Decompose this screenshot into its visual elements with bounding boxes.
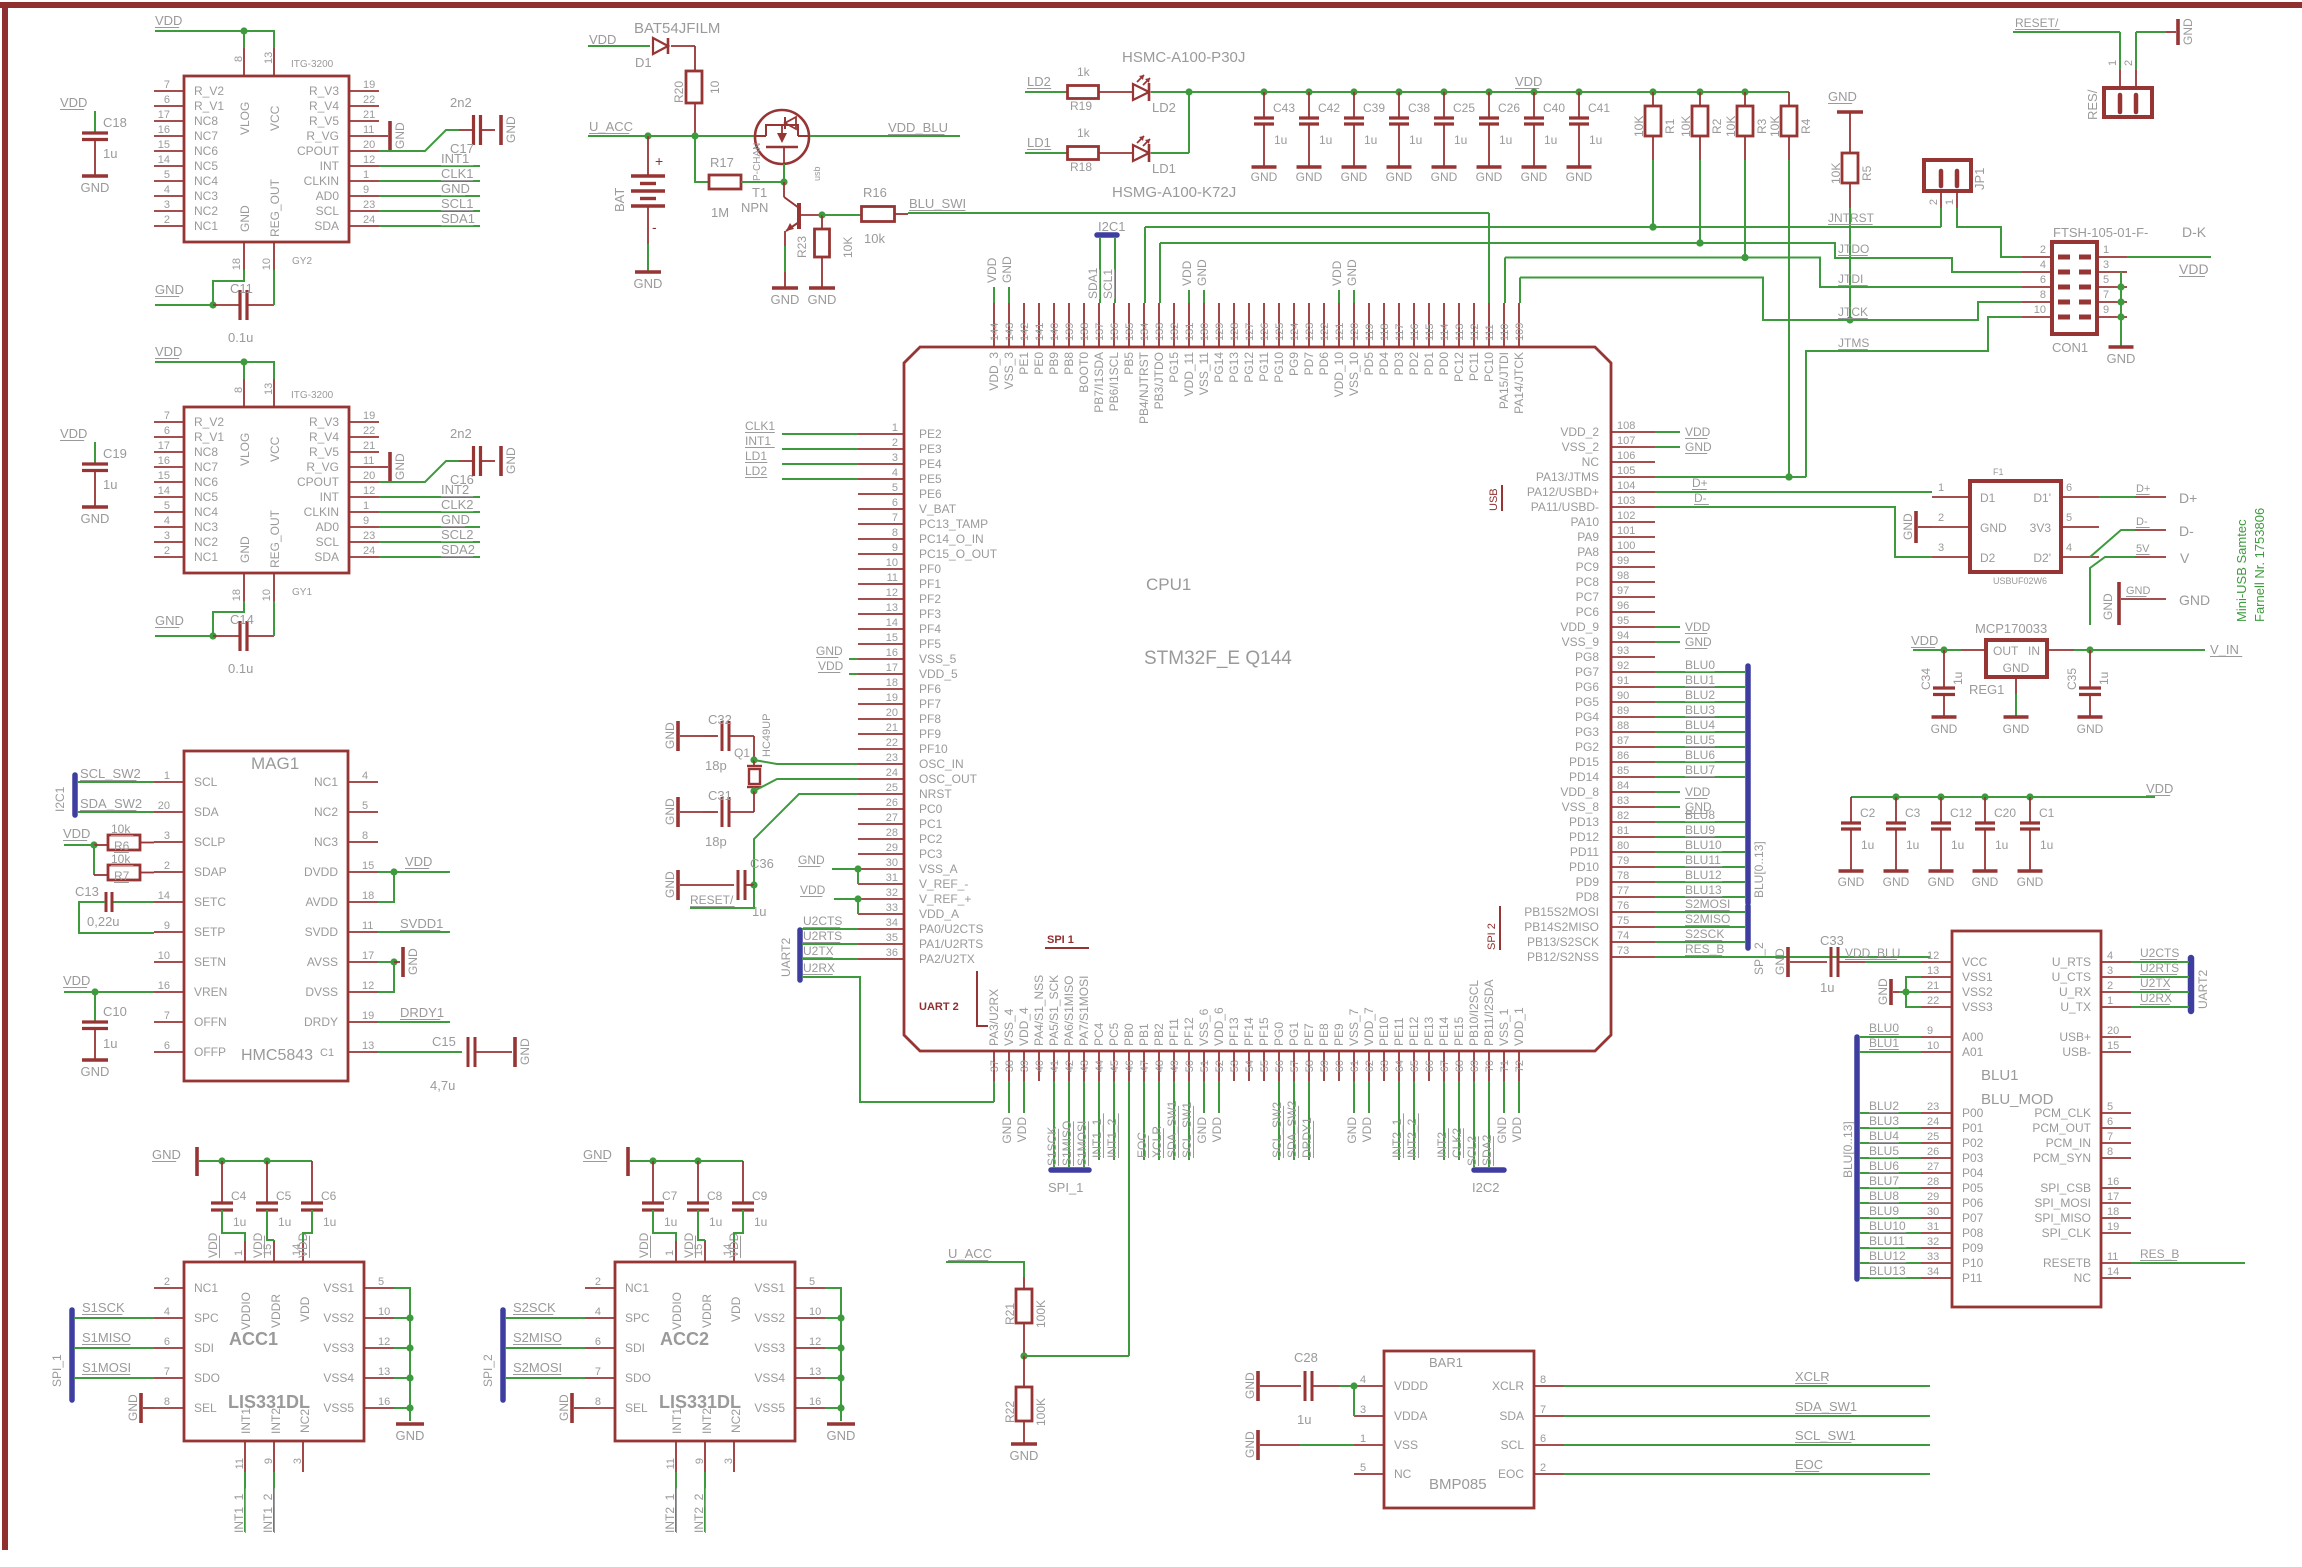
svg-text:PF11: PF11 (1167, 1018, 1181, 1046)
svg-text:S2SCK: S2SCK (513, 1300, 556, 1315)
svg-text:18p: 18p (705, 758, 727, 773)
svg-text:PB2: PB2 (1152, 1023, 1166, 1046)
svg-text:R_VG: R_VG (306, 129, 339, 143)
svg-text:BLU10: BLU10 (1685, 838, 1722, 852)
svg-text:PB4/NJTRST: PB4/NJTRST (1137, 351, 1151, 424)
svg-text:OSC_IN: OSC_IN (919, 757, 964, 771)
svg-text:C43: C43 (1273, 101, 1295, 115)
svg-text:VDD: VDD (155, 13, 182, 28)
svg-text:24: 24 (1927, 1116, 1939, 1128)
svg-text:U2RTS: U2RTS (803, 929, 842, 943)
svg-text:NC1: NC1 (194, 550, 218, 564)
svg-text:88: 88 (1617, 720, 1629, 732)
svg-text:71: 71 (1499, 1060, 1511, 1072)
svg-text:MCP170033: MCP170033 (1975, 621, 2047, 636)
svg-text:10K: 10K (841, 237, 855, 258)
svg-text:EOC: EOC (1795, 1457, 1823, 1472)
svg-text:CLK2: CLK2 (1450, 1128, 1464, 1158)
svg-text:RESET/: RESET/ (690, 893, 734, 907)
svg-text:17: 17 (158, 440, 170, 452)
svg-text:P11: P11 (1962, 1271, 1983, 1285)
svg-text:MAG1: MAG1 (251, 754, 299, 773)
svg-text:44: 44 (1094, 1060, 1106, 1072)
svg-text:15: 15 (158, 139, 170, 151)
nets INT1_1 INT1_2 below ACC1 (232, 1472, 275, 1533)
svg-text:S1MISO: S1MISO (1060, 1121, 1074, 1166)
svg-text:R_VG: R_VG (306, 460, 339, 474)
svg-text:RES_B: RES_B (1685, 942, 1724, 956)
net JTDI wire (1505, 254, 2022, 303)
svg-text:U_RTS: U_RTS (2052, 955, 2091, 969)
svg-text:11: 11 (665, 1458, 677, 1469)
svg-text:120: 120 (1349, 323, 1361, 341)
svg-text:VDD_8: VDD_8 (1560, 785, 1599, 799)
svg-text:VDD: VDD (63, 973, 90, 988)
annotation USB red rotated (1488, 485, 1502, 511)
svg-text:NC1: NC1 (194, 1281, 218, 1295)
svg-text:34: 34 (1927, 1266, 1939, 1278)
svg-text:80: 80 (1617, 840, 1629, 852)
svg-text:GND: GND (798, 853, 825, 867)
svg-text:+: + (655, 153, 663, 169)
svg-text:NC3: NC3 (314, 835, 338, 849)
svg-text:5: 5 (378, 1276, 384, 1288)
svg-text:18: 18 (2107, 1206, 2119, 1218)
svg-text:RES/: RES/ (2085, 89, 2100, 120)
svg-text:20: 20 (363, 139, 375, 151)
svg-text:41: 41 (1049, 1060, 1061, 1072)
svg-text:VDD: VDD (1360, 1117, 1374, 1143)
svg-text:EOC: EOC (1498, 1467, 1524, 1481)
svg-text:SDA: SDA (194, 805, 219, 819)
svg-text:PD0: PD0 (1437, 352, 1451, 376)
svg-text:PG7: PG7 (1575, 665, 1599, 679)
svg-text:3: 3 (292, 1458, 304, 1464)
svg-text:U_RX: U_RX (2059, 985, 2091, 999)
svg-text:PE6: PE6 (919, 487, 942, 501)
svg-text:VDD: VDD (1685, 425, 1711, 439)
net D+ from F1 pin 6 (2099, 483, 2197, 506)
svg-text:D2': D2' (2033, 551, 2051, 565)
resistor R21 100K (1003, 1277, 1048, 1360)
svg-text:16: 16 (158, 980, 170, 992)
svg-text:C33: C33 (1820, 933, 1844, 948)
svg-text:7: 7 (164, 410, 170, 422)
svg-text:NC2: NC2 (314, 805, 338, 819)
svg-text:GND: GND (518, 1038, 532, 1065)
nets INT2_1 INT2_2 below CPU pins 64,65 (1390, 1081, 1419, 1160)
svg-text:9: 9 (2103, 304, 2109, 316)
svg-text:73: 73 (1617, 945, 1629, 957)
svg-text:SPI_2: SPI_2 (481, 1354, 495, 1387)
svg-text:C5: C5 (276, 1189, 292, 1203)
svg-text:NC: NC (1582, 455, 1600, 469)
svg-text:AVDD: AVDD (306, 895, 339, 909)
svg-text:D+: D+ (2136, 483, 2150, 495)
svg-text:PG5: PG5 (1575, 695, 1599, 709)
svg-text:HSMG-A100-K72J: HSMG-A100-K72J (1112, 184, 1236, 201)
svg-text:GND: GND (1386, 170, 1413, 184)
net labels at GY2 right pins (379, 151, 480, 226)
svg-text:SDA2: SDA2 (1480, 1134, 1494, 1166)
svg-text:2: 2 (164, 1276, 170, 1288)
svg-text:VSS_8: VSS_8 (1562, 800, 1600, 814)
svg-text:C32: C32 (708, 712, 732, 727)
svg-text:INT: INT (320, 490, 340, 504)
nets BLU0 BLU1 to module pins 9,10 (1859, 1021, 1921, 1052)
svg-text:54: 54 (1244, 1060, 1256, 1072)
svg-text:87: 87 (1617, 735, 1629, 747)
bus BLU[0..13] at CPU right (1748, 666, 1766, 903)
svg-text:GND: GND (1000, 1117, 1014, 1144)
svg-text:16: 16 (809, 1396, 821, 1408)
svg-text:PF15: PF15 (1257, 1017, 1271, 1046)
svg-text:SCL: SCL (1501, 1438, 1525, 1452)
svg-text:P-CHAN: P-CHAN (752, 143, 763, 181)
nets GND VDD to CPU pins 30-33 (798, 853, 862, 914)
svg-text:PE9: PE9 (1332, 1023, 1346, 1046)
svg-text:R_V2: R_V2 (194, 415, 224, 429)
svg-text:4,7u: 4,7u (430, 1078, 455, 1093)
svg-text:10: 10 (378, 1306, 390, 1318)
svg-text:VSS_4: VSS_4 (1002, 1008, 1016, 1046)
svg-text:U2RTS: U2RTS (2140, 961, 2179, 975)
svg-text:VSS4: VSS4 (323, 1371, 354, 1385)
svg-text:114: 114 (1439, 323, 1451, 341)
svg-text:NC: NC (1394, 1467, 1412, 1481)
resistor R1 10K (1632, 88, 1677, 230)
svg-text:1u: 1u (1951, 838, 1964, 852)
svg-text:VDD_A: VDD_A (919, 907, 959, 921)
svg-text:12: 12 (1927, 950, 1939, 962)
nets VDD GND at CPU pins 108,107 (1655, 425, 1712, 454)
svg-text:PF14: PF14 (1242, 1017, 1256, 1046)
svg-text:DRDY: DRDY (304, 1015, 338, 1029)
svg-text:C42: C42 (1318, 101, 1340, 115)
svg-text:PD5: PD5 (1362, 352, 1376, 376)
svg-text:XCLR: XCLR (1492, 1379, 1524, 1393)
svg-text:100K: 100K (1034, 1300, 1048, 1328)
svg-text:BLU12: BLU12 (1869, 1249, 1906, 1263)
capacitor C32 18p (663, 712, 754, 773)
diode D1 BAT54JFILM (634, 20, 720, 70)
svg-text:UART2: UART2 (2196, 970, 2210, 1009)
svg-text:132: 132 (1169, 323, 1181, 341)
svg-text:PD6: PD6 (1317, 352, 1331, 376)
svg-text:VDD_1: VDD_1 (1512, 1007, 1526, 1046)
wire GND stub under T1 emitter (784, 272, 786, 288)
svg-text:INT1: INT1 (670, 1408, 684, 1434)
svg-text:C3: C3 (1905, 806, 1921, 820)
ground at ACC1 SEL pin 8 (126, 1393, 154, 1423)
svg-text:VSS4: VSS4 (754, 1371, 785, 1385)
svg-text:BLU1: BLU1 (1685, 673, 1715, 687)
svg-text:CPOUT: CPOUT (297, 475, 340, 489)
svg-text:GND: GND (1876, 978, 1890, 1005)
svg-text:D-: D- (1694, 491, 1707, 505)
svg-text:GND: GND (1566, 170, 1593, 184)
svg-text:PC10: PC10 (1482, 352, 1496, 382)
svg-text:82: 82 (1617, 810, 1629, 822)
svg-text:103: 103 (1617, 495, 1635, 507)
svg-text:C1: C1 (320, 1047, 334, 1059)
svg-text:PC0: PC0 (919, 802, 943, 816)
svg-text:SVDD: SVDD (305, 925, 339, 939)
svg-text:99: 99 (1617, 555, 1629, 567)
svg-text:VSS_11: VSS_11 (1197, 352, 1211, 395)
svg-text:PG2: PG2 (1575, 740, 1599, 754)
svg-text:D+: D+ (1692, 476, 1708, 490)
svg-text:17: 17 (158, 109, 170, 121)
svg-text:119: 119 (1364, 323, 1376, 341)
svg-text:PB3/JTDO: PB3/JTDO (1152, 352, 1166, 409)
svg-text:PB12/S2NSS: PB12/S2NSS (1527, 950, 1599, 964)
svg-text:10K: 10K (1724, 116, 1738, 137)
svg-text:17: 17 (362, 950, 374, 962)
svg-text:PB13/S2SCK: PB13/S2SCK (1527, 935, 1599, 949)
svg-text:GND: GND (1931, 722, 1958, 736)
svg-text:INT2: INT2 (700, 1408, 714, 1434)
svg-text:104: 104 (1617, 480, 1635, 492)
resistor R17 1M (695, 136, 788, 220)
svg-text:VDDD: VDDD (1394, 1379, 1428, 1393)
svg-text:PD11: PD11 (1570, 845, 1599, 859)
svg-text:PC11: PC11 (1467, 352, 1481, 381)
svg-text:D1: D1 (1980, 491, 1996, 505)
svg-text:0.1u: 0.1u (228, 661, 253, 676)
svg-text:PA3/U2RX: PA3/U2RX (987, 989, 1001, 1046)
svg-text:12: 12 (886, 587, 898, 599)
svg-text:VCC: VCC (268, 105, 282, 131)
svg-text:101: 101 (1617, 525, 1635, 537)
svg-text:S2MISO: S2MISO (513, 1330, 562, 1345)
svg-text:79: 79 (1617, 855, 1629, 867)
svg-text:PA9: PA9 (1577, 530, 1599, 544)
svg-text:14: 14 (886, 617, 898, 629)
svg-text:REG_OUT: REG_OUT (268, 178, 282, 237)
svg-text:VDD_6: VDD_6 (1212, 1007, 1226, 1046)
svg-text:29: 29 (886, 842, 898, 854)
svg-text:18: 18 (231, 589, 243, 601)
svg-text:LD1: LD1 (1027, 135, 1051, 150)
svg-text:OUT: OUT (1993, 644, 2019, 658)
net V_IN at REG1 IN + capacitor C35 1u (2065, 642, 2242, 736)
nets VDD GND at CPU pins 95,94 (1655, 620, 1712, 649)
svg-text:VSS1: VSS1 (754, 1281, 785, 1295)
svg-text:VDDA: VDDA (1394, 1409, 1427, 1423)
svg-text:8: 8 (164, 1396, 170, 1408)
svg-text:PA6/S1MISO: PA6/S1MISO (1062, 976, 1076, 1046)
svg-text:23: 23 (886, 752, 898, 764)
svg-text:NPN: NPN (741, 200, 768, 215)
svg-text:49: 49 (1169, 1060, 1181, 1072)
svg-text:INT2_1: INT2_1 (663, 1493, 677, 1533)
svg-text:6: 6 (164, 425, 170, 437)
svg-text:R_V2: R_V2 (194, 84, 224, 98)
svg-text:PE7: PE7 (1302, 1023, 1316, 1046)
svg-text:CPU1: CPU1 (1146, 575, 1191, 594)
svg-text:VSS3: VSS3 (323, 1341, 354, 1355)
svg-text:143: 143 (1004, 323, 1016, 341)
svg-text:6: 6 (595, 1336, 601, 1348)
svg-text:19: 19 (363, 79, 375, 91)
svg-text:VDD_BLU: VDD_BLU (888, 120, 948, 135)
svg-text:LD1: LD1 (745, 449, 767, 463)
svg-text:PG0: PG0 (1272, 1022, 1286, 1046)
svg-text:DVSS: DVSS (305, 985, 338, 999)
svg-text:3: 3 (2103, 259, 2109, 271)
svg-text:VSS3: VSS3 (1962, 1000, 1993, 1014)
svg-text:ITG-3200: ITG-3200 (291, 390, 334, 401)
wire LED anodes to VDD rail (1188, 92, 1190, 153)
svg-text:PC5: PC5 (1107, 1022, 1121, 1046)
svg-text:OFFP: OFFP (194, 1045, 226, 1059)
svg-text:SCL1: SCL1 (1101, 269, 1115, 299)
resistor R16 10k (822, 185, 908, 246)
svg-text:PD12: PD12 (1569, 830, 1599, 844)
svg-text:NC2: NC2 (194, 535, 218, 549)
svg-text:23: 23 (363, 530, 375, 542)
svg-text:VSS5: VSS5 (754, 1401, 785, 1415)
svg-text:SETC: SETC (194, 895, 226, 909)
svg-text:PCM_IN: PCM_IN (2046, 1136, 2091, 1150)
svg-text:VDD: VDD (63, 826, 90, 841)
svg-text:PG6: PG6 (1575, 680, 1599, 694)
svg-text:NC: NC (2074, 1271, 2092, 1285)
svg-text:GND: GND (406, 948, 420, 975)
svg-text:R_V4: R_V4 (309, 99, 339, 113)
svg-text:GND: GND (1345, 259, 1359, 286)
svg-text:U2RX: U2RX (803, 961, 835, 975)
svg-text:105: 105 (1617, 465, 1635, 477)
ground rail at ACC1 VSS pins (394, 1288, 424, 1443)
svg-text:V_REF_+: V_REF_+ (919, 892, 971, 906)
svg-text:GND: GND (808, 292, 837, 307)
svg-text:11: 11 (363, 124, 374, 136)
svg-text:133: 133 (1154, 323, 1166, 341)
svg-text:VDDR: VDDR (700, 1294, 714, 1328)
IC REG1 MCP170033 (1961, 621, 2074, 697)
svg-text:20: 20 (886, 707, 898, 719)
svg-text:1u: 1u (103, 1036, 117, 1051)
net VDD rail top (1189, 74, 1789, 92)
resistor R6 10k (63, 822, 154, 853)
svg-text:PF5: PF5 (919, 637, 941, 651)
svg-text:BLU8: BLU8 (1869, 1189, 1899, 1203)
svg-text:INT1: INT1 (441, 151, 469, 166)
svg-text:20: 20 (2107, 1025, 2119, 1037)
svg-text:1u: 1u (1499, 133, 1512, 147)
svg-text:SDI: SDI (625, 1341, 645, 1355)
bus I2C2 and nets SCL2 SDA2 below CPU pins 69,70 (1465, 1081, 1504, 1195)
svg-text:9: 9 (164, 920, 170, 932)
svg-text:PCM_SYN: PCM_SYN (2033, 1151, 2091, 1165)
ground at BAR1 VSS (1243, 1430, 1354, 1460)
svg-text:I2C2: I2C2 (1472, 1180, 1499, 1195)
svg-text:1: 1 (2107, 995, 2113, 1007)
svg-text:NC4: NC4 (194, 174, 218, 188)
svg-text:INT1_2: INT1_2 (1105, 1118, 1119, 1158)
svg-text:PF4: PF4 (919, 622, 941, 636)
svg-text:BOOT0: BOOT0 (1077, 352, 1091, 393)
svg-text:77: 77 (1617, 885, 1629, 897)
svg-text:R19: R19 (1070, 99, 1092, 113)
svg-text:BLU0: BLU0 (1685, 658, 1715, 672)
svg-text:BLU5: BLU5 (1685, 733, 1715, 747)
svg-text:50: 50 (1184, 1060, 1196, 1072)
svg-text:BLU_SWI: BLU_SWI (909, 196, 966, 211)
svg-text:PD7: PD7 (1302, 352, 1316, 376)
svg-text:SDA1: SDA1 (441, 211, 475, 226)
svg-text:7: 7 (164, 1010, 170, 1022)
svg-text:63: 63 (1379, 1060, 1391, 1072)
svg-text:1: 1 (233, 1250, 245, 1256)
svg-text:VDD: VDD (251, 1232, 265, 1258)
svg-text:BAR1: BAR1 (1429, 1355, 1463, 1370)
svg-text:CLK1: CLK1 (745, 419, 775, 433)
svg-text:6: 6 (1540, 1433, 1546, 1445)
svg-text:106: 106 (1617, 450, 1635, 462)
svg-text:1: 1 (2107, 60, 2119, 66)
svg-text:15: 15 (886, 632, 898, 644)
svg-text:NC6: NC6 (194, 475, 218, 489)
svg-text:83: 83 (1617, 795, 1629, 807)
nets D+ D- at CPU pins 104,103 (1655, 476, 1932, 557)
svg-text:53: 53 (1229, 1060, 1241, 1072)
svg-text:1u: 1u (1544, 133, 1557, 147)
svg-text:PA1/U2RTS: PA1/U2RTS (919, 937, 983, 951)
svg-text:7: 7 (164, 79, 170, 91)
svg-text:USB-: USB- (2062, 1045, 2091, 1059)
transistor T1 P-channel MOSFET (752, 110, 822, 181)
svg-text:usb: usb (812, 166, 822, 181)
svg-text:40: 40 (1034, 1060, 1046, 1072)
svg-text:GND: GND (81, 511, 110, 526)
svg-text:PB9: PB9 (1047, 352, 1061, 375)
svg-text:S1SCK: S1SCK (82, 1300, 125, 1315)
bus SPI_2 at ACC2 (481, 1310, 503, 1400)
svg-text:INT2_1: INT2_1 (1390, 1118, 1404, 1158)
capacitor C33 1u at BLU1 VCC (1773, 933, 1921, 995)
svg-text:64: 64 (1394, 1060, 1406, 1072)
svg-text:5: 5 (164, 500, 170, 512)
svg-text:2: 2 (2123, 60, 2135, 66)
svg-text:VDD: VDD (682, 1232, 696, 1258)
svg-text:VDD_7: VDD_7 (1362, 1007, 1376, 1046)
capacitor C16 2n2 at GY1 CPOUT (379, 426, 518, 487)
svg-text:52: 52 (1214, 1060, 1226, 1072)
svg-text:D1': D1' (2033, 491, 2051, 505)
capacitor C19 1u bypass near GY1 (60, 426, 127, 526)
svg-text:PG9: PG9 (1287, 352, 1301, 376)
svg-text:10: 10 (809, 1306, 821, 1318)
svg-text:10: 10 (2034, 304, 2046, 316)
svg-text:VDD_5: VDD_5 (919, 667, 958, 681)
capacitor C40 1u on VDD rail (1521, 88, 1566, 184)
svg-text:5: 5 (362, 800, 368, 812)
svg-text:SCL2: SCL2 (441, 527, 474, 542)
svg-text:BLU3: BLU3 (1685, 703, 1715, 717)
svg-text:VDD: VDD (1515, 74, 1542, 89)
svg-text:131: 131 (1184, 323, 1196, 341)
svg-text:85: 85 (1617, 765, 1629, 777)
svg-text:D2: D2 (1980, 551, 1996, 565)
svg-text:VSS2: VSS2 (323, 1311, 354, 1325)
svg-text:SPI_MOSI: SPI_MOSI (2034, 1196, 2091, 1210)
net JTMS wire (1806, 317, 2022, 477)
svg-text:11: 11 (887, 572, 898, 584)
svg-text:VSS2: VSS2 (754, 1311, 785, 1325)
